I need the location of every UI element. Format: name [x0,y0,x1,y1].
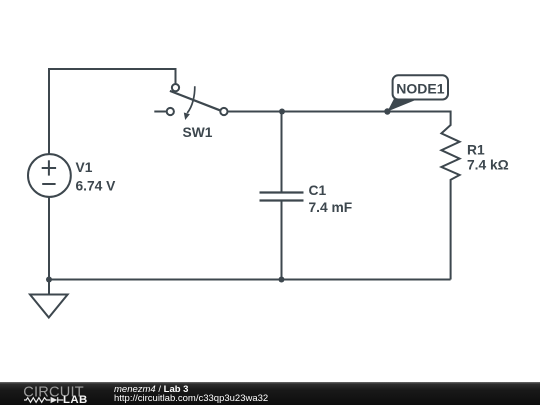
node NODE1 dot [384,108,390,114]
svg-text:SW1: SW1 [183,125,213,140]
capacitor C1 plates [260,193,304,201]
svg-text:6.74 V: 6.74 V [76,178,117,193]
svg-text:7.4 kΩ: 7.4 kΩ [467,157,509,172]
svg-text:C1: C1 [309,183,327,198]
ground [30,280,68,318]
node junction dot (capacitor bottom) [279,277,285,283]
wire switch unused throw stub [154,111,166,113]
footer bar [0,382,540,405]
svg-text:NODE1: NODE1 [396,81,444,97]
credit text [114,385,268,403]
wire capacitor top lead [281,112,283,193]
svg-text:7.4 mF: 7.4 mF [309,200,353,215]
node NODE1 flag [387,75,448,111]
switch SW1 [167,84,228,120]
wire bottom rail [49,279,451,281]
svg-text:V1: V1 [76,160,93,175]
svg-text:LAB: LAB [63,394,88,405]
wire capacitor bottom lead [281,201,283,280]
node junction dot (capacitor tap) [279,109,285,115]
voltage source V1 [28,154,71,197]
CircuitLab logo [18,382,93,405]
svg-text:R1: R1 [467,143,485,158]
wire switch to right branch with resistor R1 [228,112,460,280]
wire top-left loop: V1 top to switch common [49,69,176,154]
wire V1 bottom lead [48,197,50,280]
node junction dot (ground rail) [46,277,52,283]
